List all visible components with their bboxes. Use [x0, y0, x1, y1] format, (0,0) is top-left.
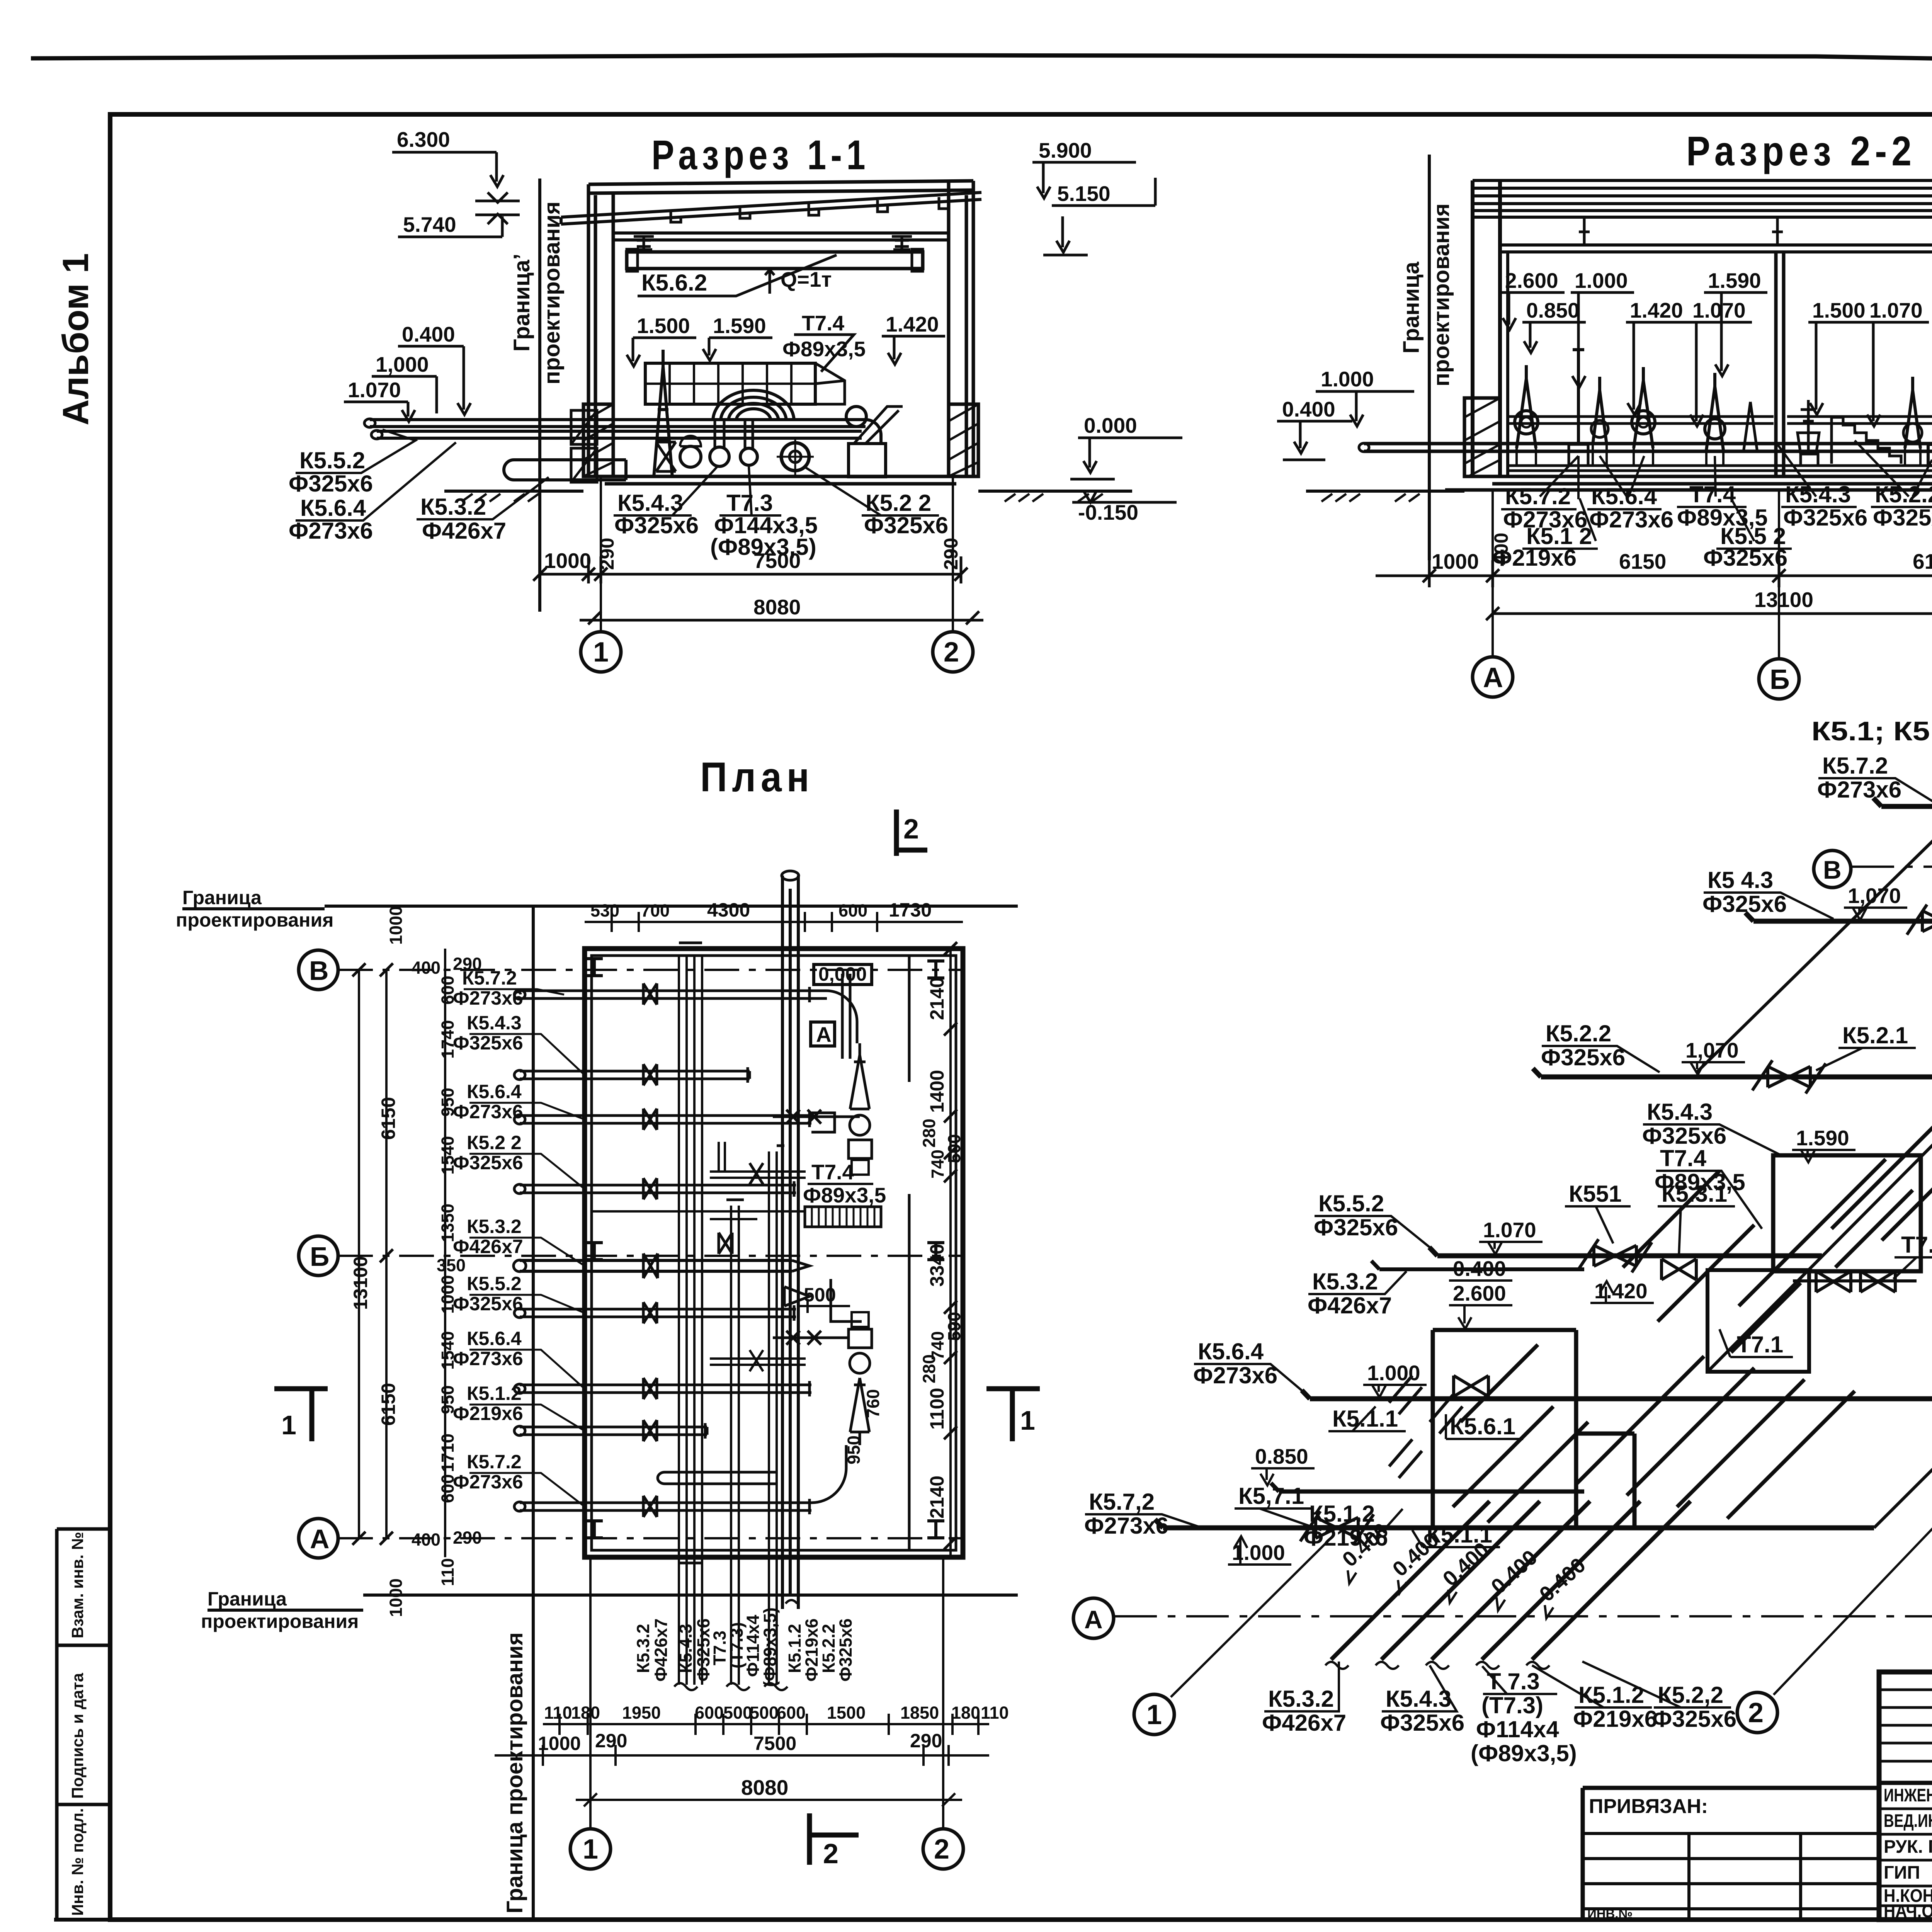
- svg-text:1,070: 1,070: [1848, 884, 1901, 908]
- svg-text:Ф273х6: Ф273х6: [453, 1471, 523, 1493]
- pipe row K5.2.2: [514, 1178, 796, 1199]
- svg-text:К5.3.2: К5.3.2: [420, 494, 486, 520]
- svg-text:Т7.4: Т7.4: [1660, 1145, 1707, 1171]
- svg-text:К5.7.2: К5.7.2: [1822, 753, 1888, 779]
- vertical pipe bundle left: [679, 956, 702, 1685]
- top beam: [588, 181, 973, 193]
- svg-text:Б: Б: [1770, 664, 1790, 695]
- right elbow and equipment: [846, 406, 866, 427]
- valve in section: [656, 442, 676, 471]
- svg-text:1.000: 1.000: [1367, 1361, 1420, 1385]
- svg-text:Ф426х7: Ф426х7: [1308, 1293, 1392, 1318]
- svg-text:1000: 1000: [386, 906, 406, 945]
- slash valves on riser: [1389, 1376, 1422, 1478]
- crane rail I-beam left: [634, 236, 654, 250]
- svg-text:К5,7.1: К5,7.1: [1238, 1483, 1304, 1509]
- svg-text:290: 290: [453, 1528, 482, 1548]
- svg-text:К5.4.3: К5.4.3: [467, 1012, 522, 1034]
- svg-text:0.400: 0.400: [1282, 397, 1335, 421]
- svg-text:600: 600: [838, 901, 867, 920]
- roof hangers: [1579, 217, 1932, 245]
- K5.2 pipe: [1533, 1068, 1932, 1144]
- bund wall grid: [645, 363, 845, 404]
- axis circle 1: [581, 632, 621, 672]
- svg-text:600: 600: [695, 1703, 724, 1723]
- K5.4 pipe: [1745, 913, 1932, 983]
- svg-text:180: 180: [951, 1703, 980, 1723]
- leader to circle 2: [1774, 1287, 1932, 1695]
- svg-text:К5.2.1: К5.2.1: [1842, 1022, 1908, 1048]
- axis extension lines: [601, 476, 953, 632]
- svg-text:Граница: Граница: [207, 1588, 287, 1610]
- A detail box: [811, 1022, 835, 1046]
- valves K5.5.1 / K5.3.1: [1578, 1239, 1652, 1272]
- vertical pipe top right: [842, 974, 850, 1059]
- right half equipment: [1905, 377, 1920, 448]
- building outline: [585, 949, 963, 1557]
- left row labels: [453, 967, 523, 1493]
- K5.6 branch to injector lower: [710, 1350, 806, 1371]
- big diagonal from bottom pipe: [1874, 1254, 1932, 1528]
- T7.1 box: [1708, 1270, 1809, 1372]
- svg-text:400: 400: [412, 958, 440, 978]
- svg-text:950: 950: [844, 1435, 864, 1464]
- attachment block (Привязан): [1583, 1788, 1879, 1920]
- svg-text:1.500: 1.500: [637, 314, 690, 338]
- svg-text:290: 290: [596, 538, 618, 570]
- bottom dim line 1: [1376, 560, 1932, 587]
- svg-text:1100: 1100: [926, 1388, 948, 1430]
- svg-text:Q=1т: Q=1т: [781, 267, 832, 291]
- svg-text:Ф273х6: Ф273х6: [1193, 1362, 1277, 1388]
- floor slab: [605, 476, 956, 484]
- equipment base line: [1509, 466, 1932, 471]
- pipe row K5.4.3: [514, 1064, 750, 1085]
- pipe row K5.3.2: [514, 1253, 810, 1278]
- roof band: [1473, 180, 1932, 217]
- svg-text:1400: 1400: [926, 1070, 948, 1113]
- K5.7 bottom pipe: [1155, 1519, 1874, 1528]
- axis A line (scheme): [1114, 1615, 1932, 1617]
- svg-text:Ф219х6: Ф219х6: [1573, 1706, 1657, 1732]
- svg-text:1.070: 1.070: [1483, 1218, 1536, 1242]
- svg-text:5.900: 5.900: [1039, 138, 1092, 162]
- bottom dimension line 1: [540, 556, 961, 583]
- svg-text:290: 290: [940, 538, 962, 570]
- injector plan top: [850, 1043, 869, 1109]
- svg-text:К5.6.1: К5.6.1: [1450, 1413, 1515, 1439]
- axis circle 2: [933, 632, 973, 672]
- svg-text:К5.6.4: К5.6.4: [300, 495, 366, 521]
- column axis lines to circles: [590, 1557, 943, 1829]
- svg-text:290: 290: [910, 1730, 942, 1752]
- svg-text:1000: 1000: [386, 1578, 406, 1617]
- floor slab: [1445, 476, 1932, 490]
- svg-text:280: 280: [919, 1354, 939, 1383]
- svg-text:Ф114х4: Ф114х4: [1476, 1716, 1559, 1742]
- svg-text:0.400: 0.400: [1453, 1257, 1506, 1281]
- svg-text:8080: 8080: [741, 1776, 788, 1799]
- svg-text:1.500: 1.500: [1812, 298, 1866, 322]
- pipe row K5.7.2 (B): [514, 983, 857, 1043]
- svg-text:1: 1: [583, 1834, 598, 1865]
- svg-text:Ф325х6: Ф325х6: [1314, 1214, 1398, 1240]
- equipment cones row: [1517, 365, 1536, 448]
- crane girder: [627, 252, 923, 269]
- svg-text:Т7.4: Т7.4: [1689, 481, 1736, 507]
- leader to circle 1: [1171, 1540, 1329, 1697]
- svg-text:6.300: 6.300: [397, 128, 450, 151]
- svg-text:К5.3.2: К5.3.2: [1268, 1686, 1334, 1712]
- pipe row K5.5.2: [514, 1302, 796, 1323]
- valve K5.4.1: [1907, 905, 1932, 938]
- svg-text:Ф325х6: Ф325х6: [453, 1152, 523, 1173]
- svg-text:Ф426х7: Ф426х7: [453, 1236, 523, 1257]
- ceiling beam: [1500, 245, 1932, 252]
- svg-text:2: 2: [944, 637, 959, 668]
- svg-text:РУК. ГР.: РУК. ГР.: [1884, 1836, 1932, 1857]
- svg-text:К5.1; К5.2; К 5.3; К5.4; К 5.5: К5.1; К5.2; К 5.3; К5.4; К 5.5; К5.6; К5…: [1811, 716, 1932, 746]
- pipe bundle from left: [370, 420, 866, 438]
- building left column: [588, 184, 613, 476]
- svg-text:5.740: 5.740: [403, 213, 456, 236]
- svg-text:Т7.2: Т7.2: [1901, 1232, 1932, 1258]
- svg-text:К5.6.4: К5.6.4: [467, 1328, 522, 1349]
- svg-text:1: 1: [593, 637, 609, 668]
- svg-text:Ф273х6: Ф273х6: [453, 1348, 523, 1369]
- svg-text:6150: 6150: [378, 1097, 399, 1140]
- svg-text:Ф273х6: Ф273х6: [1084, 1513, 1168, 1539]
- mid horizontal pipe Б zone: [591, 1211, 804, 1219]
- svg-text:6150: 6150: [378, 1383, 399, 1426]
- svg-text:Подпись и дата: Подпись и дата: [68, 1673, 87, 1799]
- svg-text:ИНВ.№: ИНВ.№: [1587, 1906, 1633, 1921]
- long diagonal 1: [1696, 751, 1932, 1073]
- svg-text:проектирования: проектирования: [539, 201, 565, 384]
- crane rail I-beam right: [892, 236, 912, 250]
- svg-text:Инв. № подл.: Инв. № подл.: [68, 1808, 87, 1916]
- svg-text:760: 760: [863, 1389, 883, 1418]
- wall penetration hatched blocks: [571, 410, 597, 482]
- label leaders: [464, 989, 585, 1507]
- svg-text:К5.7.2: К5.7.2: [1505, 483, 1571, 509]
- svg-text:К5.3.2: К5.3.2: [467, 1216, 522, 1237]
- svg-text:А: А: [816, 1022, 832, 1046]
- svg-text:500: 500: [750, 1703, 779, 1723]
- boundary top line: [182, 906, 1018, 909]
- svg-text:Ф325х6: Ф325х6: [1702, 891, 1787, 917]
- left dim verticals: [359, 949, 445, 1557]
- svg-text:0.850: 0.850: [1255, 1444, 1308, 1468]
- svg-text:1000: 1000: [544, 549, 591, 573]
- pipe row K5.7.2 (A): [514, 1445, 846, 1517]
- svg-text:2: 2: [934, 1834, 949, 1865]
- svg-text:Ф273х6: Ф273х6: [453, 1101, 523, 1122]
- five 0.400 risers: [1325, 1501, 1690, 1669]
- center column: [1776, 252, 1784, 476]
- valve K5.7 bottom: [1300, 1511, 1374, 1544]
- cone marker mid plan: [784, 1287, 810, 1306]
- expansion loops: [713, 390, 794, 421]
- svg-text:180: 180: [571, 1703, 600, 1723]
- svg-text:1950: 1950: [622, 1703, 661, 1723]
- pump circle: [680, 446, 701, 467]
- svg-text:1.420: 1.420: [1630, 298, 1683, 322]
- svg-text:Ф325х6: Ф325х6: [289, 471, 373, 497]
- svg-text:1850: 1850: [900, 1703, 939, 1723]
- svg-text:(Т7.3): (Т7.3): [1481, 1692, 1543, 1718]
- axis circle A (plan): [299, 1519, 338, 1558]
- svg-text:А: А: [1084, 1605, 1103, 1634]
- vertical big header pipe: [782, 876, 798, 1609]
- thin change rows: [1879, 1690, 1932, 1761]
- tank box 1: [1773, 1155, 1921, 1271]
- svg-text:3340: 3340: [926, 1244, 948, 1287]
- bottom dim row 1: [543, 1714, 989, 1735]
- svg-text:Взам. инв. №: Взам. инв. №: [68, 1532, 87, 1638]
- svg-text:13100: 13100: [1754, 588, 1813, 612]
- plan axis circle 1: [570, 1829, 611, 1869]
- svg-text:2.600: 2.600: [1453, 1281, 1506, 1305]
- svg-text:1.590: 1.590: [713, 314, 766, 338]
- svg-text:К5.4.3: К5.4.3: [1386, 1686, 1451, 1712]
- svg-text:1.070: 1.070: [1692, 298, 1746, 322]
- T7 mid double valve: [1793, 1271, 1917, 1292]
- svg-text:110: 110: [981, 1703, 1009, 1723]
- svg-text:Ф325х6: Ф325х6: [453, 1293, 523, 1315]
- svg-text:290: 290: [595, 1730, 627, 1752]
- svg-text:Ф325х6: Ф325х6: [1873, 505, 1932, 531]
- role rows: [1879, 1809, 1932, 1906]
- svg-text:К5.7,2: К5.7,2: [1089, 1489, 1155, 1515]
- svg-text:-0.150: -0.150: [1078, 500, 1138, 524]
- svg-text:700: 700: [641, 901, 670, 920]
- injector cone: [654, 350, 672, 477]
- ground hatch marks: [462, 494, 1103, 502]
- equipment stand legs: [1517, 433, 1932, 466]
- svg-text:К5.5.2: К5.5.2: [467, 1273, 522, 1294]
- svg-text:5.150: 5.150: [1057, 182, 1111, 206]
- svg-text:1.070: 1.070: [348, 378, 401, 402]
- section mark 2 top: [896, 810, 927, 856]
- svg-text:Ф89х3,5: Ф89х3,5: [803, 1183, 886, 1207]
- svg-text:Т7.4: Т7.4: [802, 311, 844, 335]
- U-pipe detail: [658, 1472, 777, 1484]
- svg-text:Разрез 2-2: Разрез 2-2: [1686, 128, 1916, 174]
- svg-text:Ф273х6: Ф273х6: [289, 518, 373, 544]
- svg-text:280: 280: [919, 1119, 939, 1148]
- svg-text:Граница: Граница: [182, 887, 262, 908]
- svg-text:Б: Б: [310, 1242, 329, 1272]
- svg-text:Ф89х3,5: Ф89х3,5: [782, 337, 866, 361]
- svg-text:Граница: Граница: [1399, 262, 1424, 354]
- axis dash-dot lines: [338, 970, 963, 1538]
- svg-text:Ф273х6: Ф273х6: [1817, 777, 1901, 803]
- svg-text:Ф325х6: Ф325х6: [614, 512, 699, 538]
- bottom dim row 3: [576, 1793, 962, 1806]
- svg-text:2: 2: [903, 814, 919, 845]
- svg-text:К5.6.4: К5.6.4: [1591, 483, 1657, 509]
- svg-text:К551: К551: [1569, 1181, 1622, 1207]
- pipe row K5.6.4 lower: [514, 1378, 811, 1399]
- bottom dimension line 2: [580, 611, 983, 624]
- svg-text:Т7.4: Т7.4: [811, 1160, 854, 1184]
- pipe row K5.1.2: [514, 1420, 707, 1441]
- svg-text:Ф426х7: Ф426х7: [1262, 1710, 1346, 1736]
- svg-text:К5.3.2: К5.3.2: [633, 1624, 653, 1673]
- torn page top edge line: [31, 55, 1932, 64]
- title block outer: [1879, 1672, 1932, 1920]
- svg-text:1.000: 1.000: [1575, 269, 1628, 293]
- svg-text:К5.4.3: К5.4.3: [1785, 481, 1851, 507]
- vertical pipes mid: [731, 1151, 777, 1685]
- boundary line left: [1428, 155, 1431, 560]
- svg-text:2: 2: [823, 1838, 838, 1869]
- K5.6 lower pipe: [1302, 1390, 1932, 1399]
- svg-text:А: А: [1483, 662, 1503, 693]
- svg-text:0,000: 0,000: [818, 963, 867, 985]
- svg-text:2140: 2140: [926, 1476, 948, 1519]
- building walls: [1473, 180, 1932, 476]
- foundation hatched left: [583, 404, 613, 476]
- svg-text:К5.4.3: К5.4.3: [676, 1624, 696, 1673]
- svg-text:1.000: 1.000: [1321, 367, 1374, 391]
- svg-text:13100: 13100: [350, 1256, 371, 1310]
- axis B circle (scheme): [1814, 850, 1851, 888]
- long diagonal 2: [1708, 757, 1932, 1372]
- axis circle A: [1473, 657, 1513, 697]
- wall foundation hatch left: [1464, 398, 1500, 476]
- injector plan bottom: [850, 1378, 869, 1445]
- T7.4 branch pipe: [710, 1142, 806, 1178]
- top dim line: [585, 912, 963, 932]
- svg-text:Ф325х6: Ф325х6: [1380, 1710, 1464, 1736]
- svg-text:К5.1.2: К5.1.2: [467, 1383, 522, 1404]
- svg-text:К5.7.2: К5.7.2: [462, 967, 517, 989]
- svg-text:ГИП: ГИП: [1884, 1862, 1920, 1883]
- section mark 2 bottom: [810, 1813, 859, 1865]
- frame bottom extension: [54, 1918, 110, 1922]
- svg-text:НАЧ.ОТД: НАЧ.ОТД: [1884, 1901, 1932, 1921]
- svg-text:(Ф89х3,5): (Ф89х3,5): [760, 1607, 780, 1687]
- svg-text:План: План: [700, 753, 814, 800]
- svg-text:110: 110: [544, 1703, 572, 1723]
- small riser circles: [710, 447, 729, 466]
- K5.3 pipe: [1371, 1261, 1584, 1269]
- K5.1 pipe: [1271, 1483, 1584, 1492]
- svg-text:(Ф89х3,5): (Ф89х3,5): [1471, 1740, 1577, 1766]
- svg-text:0.850: 0.850: [1526, 298, 1580, 322]
- svg-text:500: 500: [723, 1703, 752, 1723]
- svg-text:К5.6.4: К5.6.4: [467, 1081, 522, 1102]
- svg-text:Ф325х6: Ф325х6: [1642, 1123, 1726, 1149]
- ladder: [805, 1207, 881, 1227]
- svg-text:В: В: [309, 956, 329, 986]
- roof purlins: [671, 197, 949, 222]
- svg-text:2140: 2140: [926, 977, 948, 1020]
- svg-text:7500: 7500: [753, 549, 801, 573]
- svg-text:Разрез 1-1: Разрез 1-1: [651, 131, 870, 178]
- svg-text:Ф426х7: Ф426х7: [651, 1618, 671, 1682]
- main pipe through: [1364, 444, 1932, 451]
- svg-text:ПРИВЯЗАН:: ПРИВЯЗАН:: [1589, 1795, 1708, 1818]
- K5.5 pipe: [1429, 1247, 1822, 1256]
- leader lines to equipment: [1540, 440, 1932, 541]
- svg-text:К5 4.3: К5 4.3: [1708, 867, 1773, 893]
- svg-text:ИНЖЕНЕР: ИНЖЕНЕР: [1884, 1785, 1932, 1805]
- svg-text:К5.4.3: К5.4.3: [1647, 1099, 1713, 1125]
- axis circle Б: [1759, 659, 1799, 699]
- svg-text:0.400: 0.400: [402, 322, 455, 346]
- ceiling beam band: [613, 233, 949, 240]
- plan axis circle 2: [923, 1829, 963, 1869]
- svg-text:Ф273х6: Ф273х6: [1589, 507, 1673, 532]
- svg-text:2: 2: [1748, 1697, 1764, 1728]
- svg-text:1,000: 1,000: [376, 352, 429, 376]
- foundation hatched right: [949, 404, 978, 476]
- svg-text:1500: 1500: [827, 1703, 866, 1723]
- svg-text:1000: 1000: [538, 1733, 581, 1754]
- svg-text:530: 530: [590, 901, 619, 920]
- svg-text:проектирования: проектирования: [1429, 203, 1454, 386]
- svg-text:8080: 8080: [753, 595, 801, 619]
- svg-text:Ф219х6: Ф219х6: [453, 1403, 523, 1424]
- svg-text:К5.4.3: К5.4.3: [617, 490, 683, 516]
- svg-text:400: 400: [412, 1530, 440, 1549]
- svg-text:1: 1: [1020, 1405, 1035, 1435]
- valve to injector top: [773, 1110, 860, 1124]
- svg-text:К5.6.2: К5.6.2: [641, 270, 707, 296]
- axis circle Б (plan): [299, 1236, 338, 1276]
- flange ticks on pipe ends: [679, 943, 810, 1563]
- ground line left: [444, 490, 1132, 493]
- tank box 3: [1433, 1330, 1634, 1526]
- svg-text:ВЕД.ИНЖ.: ВЕД.ИНЖ.: [1884, 1810, 1932, 1831]
- right wall inner lines: [908, 956, 911, 1550]
- role names: [1884, 1785, 1932, 1921]
- svg-text:Граница проектирования: Граница проектирования: [502, 1632, 527, 1913]
- bottom rotated pipe labels: [633, 1607, 855, 1687]
- section mark 1 left: [274, 1388, 328, 1441]
- svg-text:Ф325х6: Ф325х6: [1783, 505, 1867, 531]
- svg-text:6150: 6150: [1619, 549, 1666, 573]
- bottom dim line 2: [1486, 607, 1932, 620]
- svg-text:К5.7.2: К5.7.2: [467, 1451, 522, 1473]
- steel column symbols: [586, 959, 944, 1538]
- svg-text:1.420: 1.420: [1594, 1279, 1648, 1303]
- boundary line (граница проектирования): [538, 179, 541, 612]
- svg-text:1: 1: [1146, 1699, 1162, 1730]
- right dim line: [949, 949, 952, 1557]
- axis B line (scheme): [1852, 866, 1932, 868]
- svg-text:1.420: 1.420: [886, 312, 939, 336]
- svg-text:1710: 1710: [438, 1434, 457, 1472]
- svg-text:110: 110: [438, 1558, 457, 1586]
- svg-text:1.590: 1.590: [1796, 1126, 1849, 1150]
- svg-text:Ф273х6: Ф273х6: [453, 987, 523, 1009]
- roof slanted plank: [561, 192, 981, 224]
- svg-text:0.000: 0.000: [1084, 413, 1137, 437]
- section mark 1 right: [986, 1388, 1040, 1441]
- svg-text:К5.5.2: К5.5.2: [299, 447, 365, 473]
- svg-text:6150: 6150: [1913, 549, 1932, 573]
- svg-text:350: 350: [437, 1255, 466, 1275]
- axis A circle (scheme): [1073, 1598, 1114, 1638]
- svg-text:Ф325х6: Ф325х6: [1541, 1044, 1625, 1070]
- svg-text:Ф325х6: Ф325х6: [836, 1618, 855, 1682]
- bottom dim row 2: [495, 1745, 989, 1766]
- pipe 426 below: [514, 460, 626, 480]
